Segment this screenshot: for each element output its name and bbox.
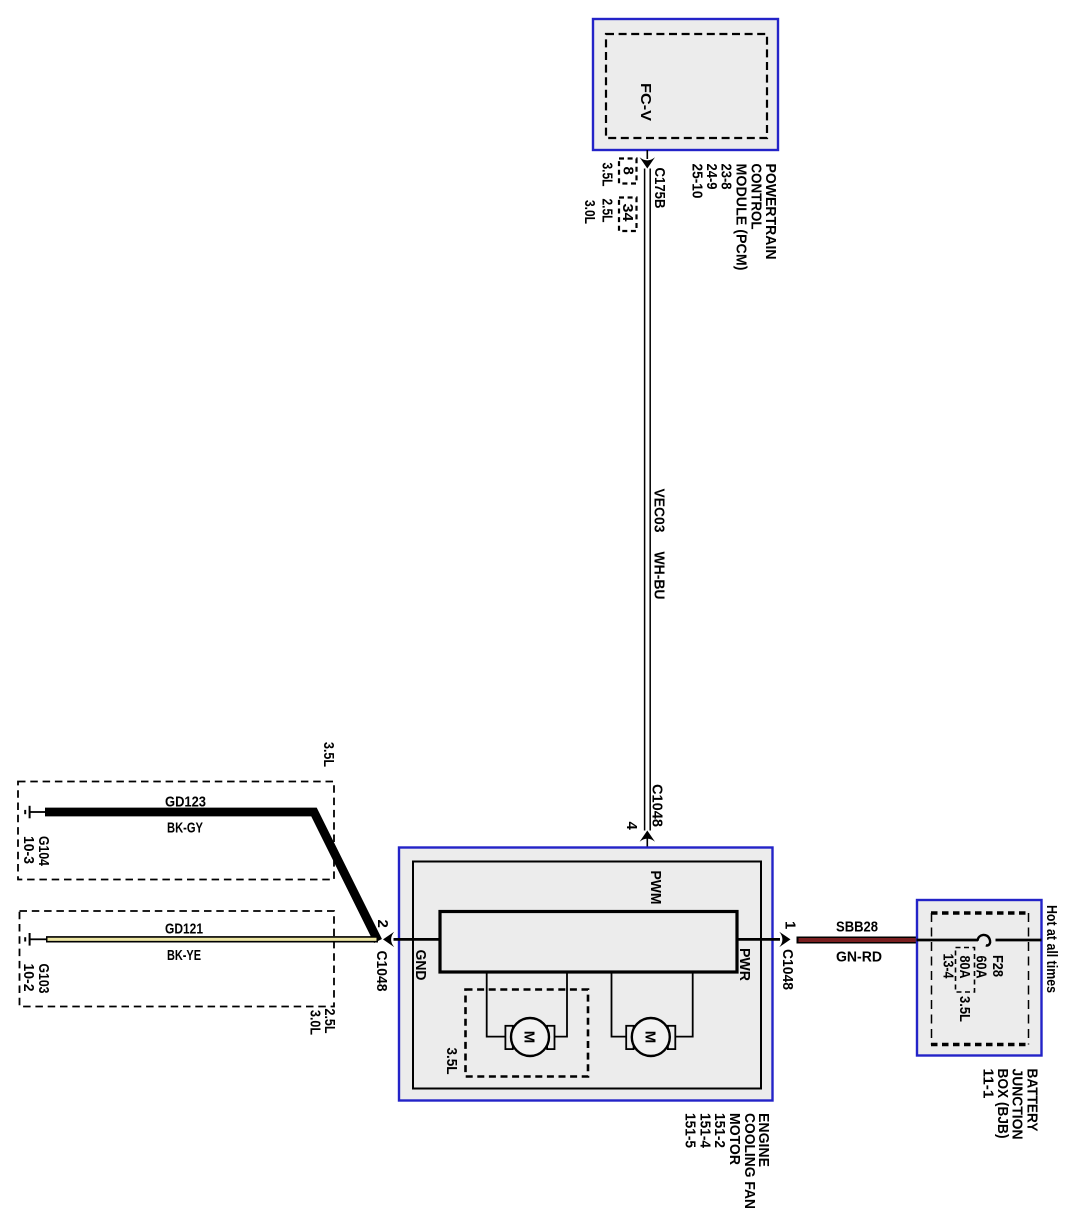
svg-text:10-3: 10-3 xyxy=(20,836,37,864)
svg-text:PWM: PWM xyxy=(647,871,664,905)
motor M right circle xyxy=(632,1018,670,1056)
svg-text:GN-RD: GN-RD xyxy=(836,949,882,966)
svg-text:C175B: C175B xyxy=(651,168,668,209)
svg-text:C1048: C1048 xyxy=(649,784,666,827)
wire GD121 BK-YE (black-yellow) xyxy=(46,936,378,942)
svg-text:3.5L: 3.5L xyxy=(320,742,337,767)
label BATTERY JUNCTION BOX (BJB) xyxy=(980,1069,1041,1140)
svg-text:34: 34 xyxy=(619,204,636,223)
wire GND to connector C1048 pin 2 xyxy=(394,938,441,941)
svg-text:C1048: C1048 xyxy=(373,951,390,992)
label ENGINE COOLING FAN MOTOR xyxy=(682,1113,773,1209)
svg-text:GD121: GD121 xyxy=(165,921,203,938)
svg-text:WH-BU: WH-BU xyxy=(651,552,668,600)
PCM box U1 (POWERTRAIN CONTROL MODULE) xyxy=(593,19,778,150)
svg-text:25-10: 25-10 xyxy=(688,164,705,199)
svg-text:2.5L: 2.5L xyxy=(599,199,616,223)
svg-text:BK-GY: BK-GY xyxy=(167,820,203,837)
svg-text:Hot at all times: Hot at all times xyxy=(1043,905,1060,993)
wire into fan box xyxy=(646,838,648,912)
svg-text:8: 8 xyxy=(620,167,637,175)
wire inside BJB xyxy=(917,939,979,942)
connector C1048 arrow (left, pin 2) xyxy=(383,932,394,947)
svg-text:3.5L: 3.5L xyxy=(443,1048,460,1075)
wire GD123 BK-GY (thick) xyxy=(45,812,378,941)
ground symbol G104 xyxy=(25,806,45,819)
label POWERTRAIN CONTROL MODULE (PCM) xyxy=(688,164,779,271)
dashed 3.5L motor box xyxy=(466,990,589,1077)
motor M right brush tabs xyxy=(626,1026,675,1049)
svg-text:F28: F28 xyxy=(989,955,1006,977)
svg-text:GD123: GD123 xyxy=(165,794,206,811)
svg-text:2: 2 xyxy=(374,920,391,928)
svg-text:151-5: 151-5 xyxy=(682,1113,699,1148)
svg-text:13-4: 13-4 xyxy=(940,954,957,980)
svg-text:M: M xyxy=(641,1031,658,1044)
fan control module rect xyxy=(440,912,737,973)
ground G104 dashed box xyxy=(18,782,334,880)
svg-text:1: 1 xyxy=(782,921,799,929)
ground G103 dashed box xyxy=(20,911,335,1007)
svg-text:M: M xyxy=(521,1031,538,1044)
pin 8 box xyxy=(619,159,637,184)
motor M left circle xyxy=(511,1018,549,1056)
svg-text:10-2: 10-2 xyxy=(20,964,37,992)
svg-text:3.0L: 3.0L xyxy=(307,1010,324,1035)
wire PWR to connector C1048 pin 1 xyxy=(737,938,780,941)
svg-text:3.5L: 3.5L xyxy=(599,163,616,187)
ENGINE COOLING FAN MOTOR box M1 xyxy=(399,848,773,1101)
pin 34 box xyxy=(619,198,637,232)
svg-text:3.0L: 3.0L xyxy=(581,200,598,224)
ground symbol G103 xyxy=(25,933,46,946)
BATTERY JUNCTION BOX (BJB) xyxy=(917,900,1042,1056)
svg-text:SBB28: SBB28 xyxy=(836,919,878,936)
svg-text:C1048: C1048 xyxy=(779,949,796,990)
connector C175B arrow xyxy=(640,157,655,168)
svg-text:PWR: PWR xyxy=(736,948,753,981)
svg-text:FC-V: FC-V xyxy=(637,83,654,121)
wire VEC03 WH-BU (double line) xyxy=(645,169,651,831)
wire SBB28 GN-RD (red) xyxy=(797,937,917,944)
svg-text:3.5L: 3.5L xyxy=(956,996,973,1022)
svg-text:80A: 80A xyxy=(956,956,973,979)
motor M left (3.5L) wires xyxy=(487,972,567,1037)
80A dashed box xyxy=(956,948,975,993)
svg-text:4: 4 xyxy=(623,822,640,831)
svg-text:VEC03: VEC03 xyxy=(651,489,668,533)
connector C1048 arrow (right, pin 1) xyxy=(779,932,790,947)
fuse F28 symbol xyxy=(978,935,991,946)
connector C1048 arrow (top of fan box) xyxy=(640,831,655,842)
wire from PCM to connector C175B xyxy=(646,150,648,159)
motor M right wires xyxy=(612,972,693,1037)
svg-text:BK-YE: BK-YE xyxy=(167,947,201,964)
motor M left brush tabs xyxy=(505,1026,554,1049)
svg-text:11-1: 11-1 xyxy=(980,1069,997,1099)
svg-text:GND: GND xyxy=(412,950,429,981)
